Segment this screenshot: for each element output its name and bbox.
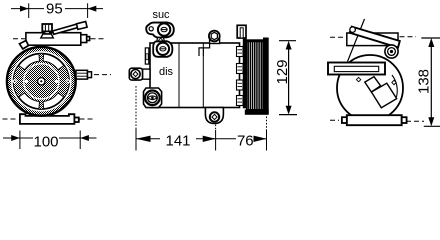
left mount lug (side view) bbox=[143, 69, 151, 79]
horizontal bar bbox=[328, 63, 385, 75]
angled bar bbox=[350, 27, 400, 48]
top lug (side view) bbox=[210, 39, 220, 44]
svg-text:129: 129 bbox=[274, 59, 291, 84]
svg-text:138: 138 bbox=[416, 69, 433, 94]
rivets left/right bbox=[12, 79, 17, 84]
suction fitting bbox=[146, 22, 174, 37]
centerlines bbox=[330, 37, 424, 122]
thin diagonal line bbox=[348, 19, 365, 62]
right side coil bumps bbox=[237, 47, 244, 106]
svg-text:100: 100 bbox=[33, 133, 58, 150]
dimension 141 / 76 bbox=[136, 86, 267, 151]
svg-text:95: 95 bbox=[46, 1, 63, 18]
lower-left ear of bracket bbox=[20, 41, 29, 50]
pulley (side view) bbox=[247, 40, 263, 110]
dimension 129 bbox=[279, 41, 297, 115]
big circle (rear) bbox=[337, 55, 403, 121]
white ring bbox=[12, 52, 71, 111]
clutch pulley front: big circle bbox=[7, 47, 76, 116]
tilted connector bbox=[365, 77, 381, 92]
svg-text:suc: suc bbox=[152, 9, 170, 21]
top bracket (front view) bbox=[26, 33, 90, 46]
lever (front view) bbox=[53, 22, 88, 35]
hub circles bbox=[385, 45, 398, 58]
centerline bottom (front view) bbox=[3, 118, 96, 120]
body bbox=[150, 43, 240, 108]
base (rear) bbox=[342, 115, 407, 125]
svg-text:141: 141 bbox=[165, 132, 190, 149]
discharge fitting bbox=[153, 41, 172, 57]
bottom mount tab (side view) bbox=[205, 108, 223, 124]
svg-text:76: 76 bbox=[237, 132, 254, 149]
arc slots bbox=[19, 54, 64, 109]
svg-text:dis: dis bbox=[159, 66, 174, 78]
base (front view) bbox=[20, 114, 79, 124]
neck between ports bbox=[157, 38, 165, 42]
clevis tab bbox=[237, 25, 246, 38]
dimension 138 bbox=[421, 38, 440, 126]
small side tab bbox=[145, 48, 149, 64]
coil bar bbox=[243, 37, 247, 109]
bottom-left boss (side view) bbox=[144, 88, 162, 108]
side port stub (front view) bbox=[76, 70, 92, 79]
hatched fitting (front view) bbox=[42, 24, 52, 31]
white circle outline bbox=[24, 64, 59, 99]
dimension 95 (front view top) bbox=[11, 3, 103, 18]
centerline top (front view) bbox=[13, 38, 106, 40]
hub bbox=[38, 78, 45, 85]
dimension 100 (front view bottom) bbox=[3, 131, 97, 150]
top rect (rear) bbox=[347, 33, 398, 46]
centerline side port (front view) bbox=[94, 74, 111, 76]
